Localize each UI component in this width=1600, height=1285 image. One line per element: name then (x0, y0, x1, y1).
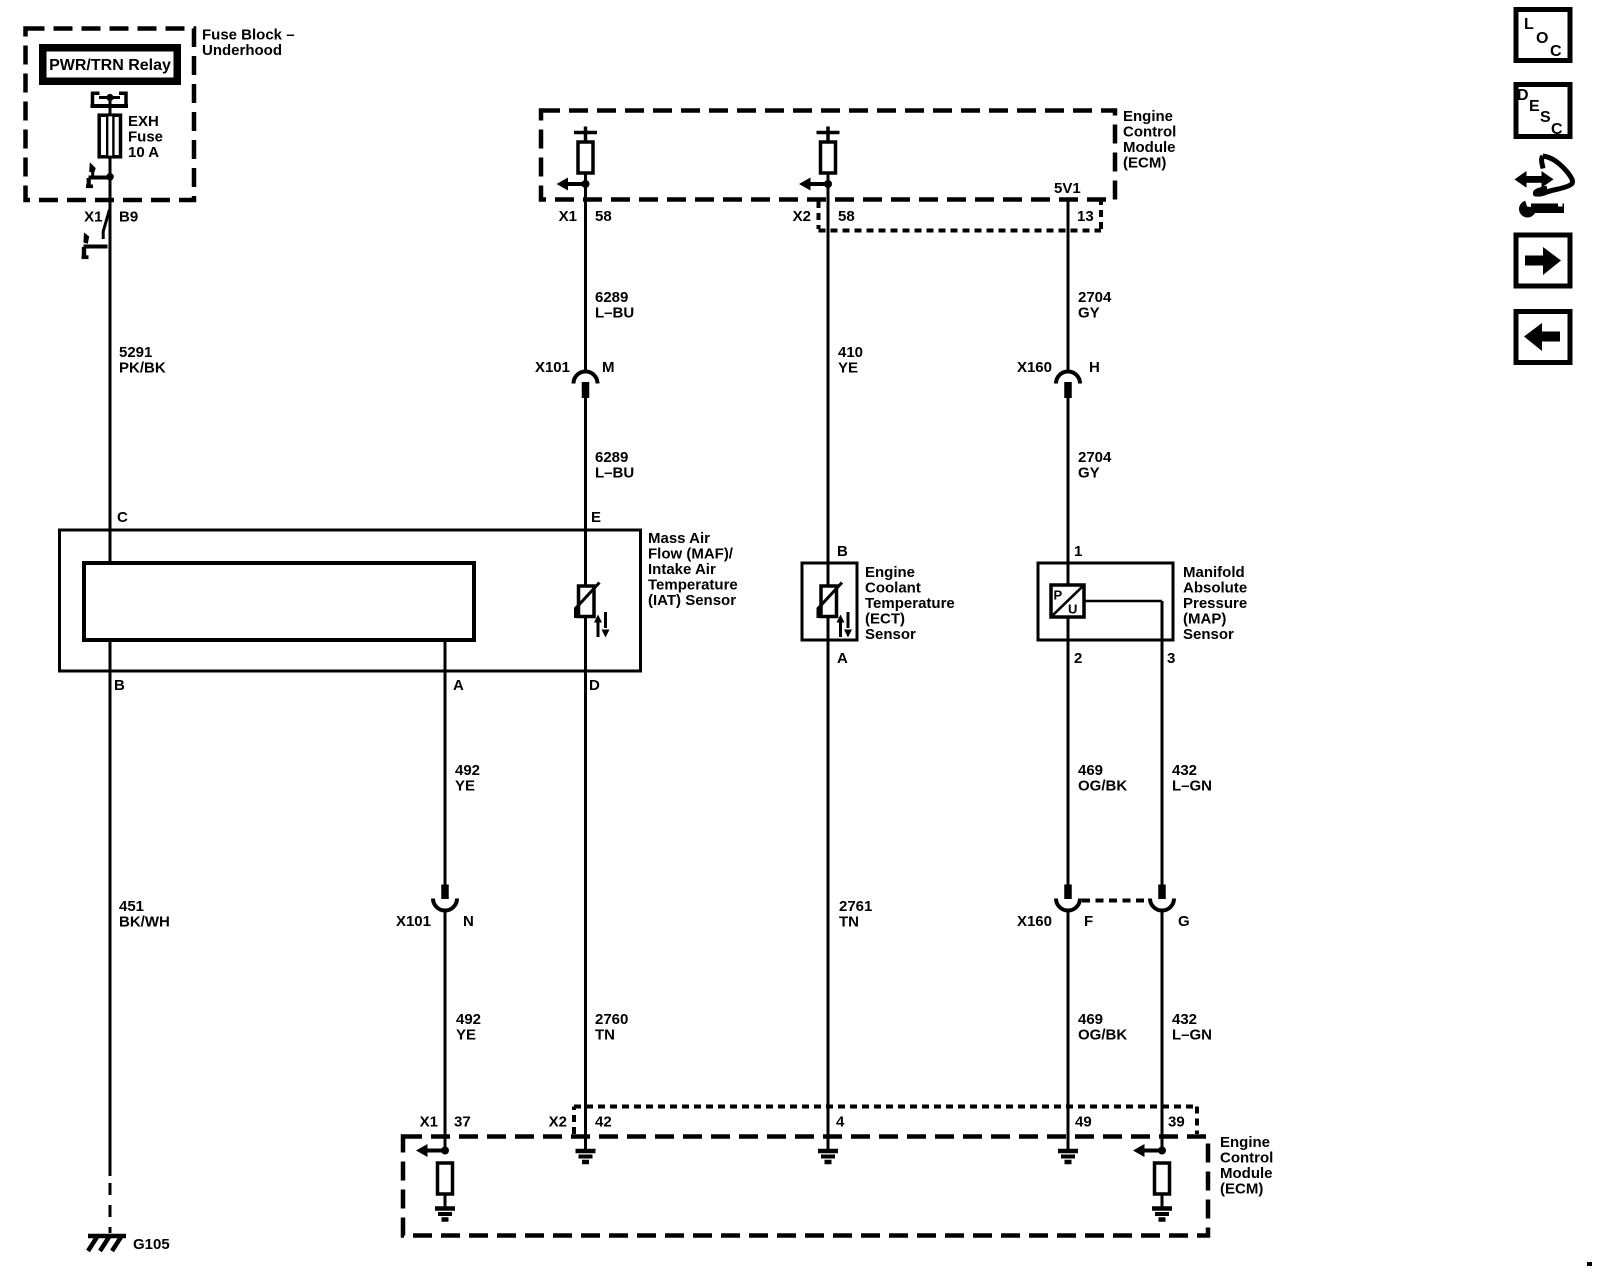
svg-text:D: D (589, 677, 600, 694)
svg-text:432: 432 (1172, 762, 1197, 779)
svg-text:49: 49 (1075, 1114, 1092, 1131)
wire 469 OG/BK upper (1067, 640, 1070, 885)
svg-text:OG/BK: OG/BK (1078, 778, 1127, 795)
svg-text:410: 410 (838, 344, 863, 361)
svg-text:X160: X160 (1017, 913, 1052, 930)
svg-text:L: L (1524, 16, 1534, 33)
ECM bottom dotted sub-connector box (574, 1107, 1197, 1135)
ECM top dotted sub-connector box (819, 201, 1102, 231)
wire E inside MAF box (584, 530, 587, 586)
connector X160 G (1158, 885, 1166, 900)
ECM internal arrow pin 37 (426, 1149, 446, 1153)
wire 2760 TN (584, 671, 587, 1149)
ground ECM pin 49 (1058, 1149, 1078, 1154)
wire A inner to outer (444, 640, 447, 671)
svg-text:Intake Air: Intake Air (648, 561, 716, 578)
svg-text:X1: X1 (559, 208, 577, 225)
svg-text:6289: 6289 (595, 449, 628, 466)
icon LOC button (1516, 10, 1570, 61)
svg-text:TN: TN (595, 1027, 615, 1044)
svg-text:E: E (591, 509, 601, 526)
svg-text:Control: Control (1123, 124, 1176, 141)
wire ECT A out (827, 617, 830, 641)
icon DESC button (1516, 85, 1570, 137)
MAF/IAT sensor inner element box (84, 563, 474, 640)
ECM driver resistor X2-58 (817, 127, 840, 143)
svg-text:BK/WH: BK/WH (119, 914, 170, 931)
svg-text:3: 3 (1167, 650, 1175, 667)
svg-text:A: A (837, 650, 848, 667)
svg-text:Coolant: Coolant (865, 580, 921, 597)
svg-text:(MAP): (MAP) (1183, 611, 1226, 628)
svg-text:2760: 2760 (595, 1011, 628, 1028)
svg-text:L–GN: L–GN (1172, 1027, 1212, 1044)
svg-text:X160: X160 (1017, 359, 1052, 376)
svg-text:OG/BK: OG/BK (1078, 1027, 1127, 1044)
svg-text:C: C (117, 509, 128, 526)
ECM internal arrow X2-58 (809, 182, 829, 186)
ECM internal arrow pin 39 (1143, 1149, 1163, 1153)
svg-text:C: C (1550, 43, 1562, 60)
svg-text:Control: Control (1220, 1150, 1273, 1167)
svg-text:L–BU: L–BU (595, 465, 634, 482)
wire MAP pin 2 out (1067, 617, 1070, 640)
svg-text:58: 58 (595, 208, 612, 225)
svg-text:G105: G105 (133, 1236, 170, 1253)
svg-text:(IAT) Sensor: (IAT) Sensor (648, 592, 736, 609)
svg-text:O: O (1536, 30, 1548, 47)
svg-text:X101: X101 (396, 913, 431, 930)
svg-text:S: S (1540, 109, 1551, 126)
svg-text:TN: TN (839, 914, 859, 931)
svg-text:42: 42 (595, 1114, 612, 1131)
svg-text:Underhood: Underhood (202, 42, 282, 59)
svg-text:2704: 2704 (1078, 449, 1112, 466)
svg-text:(ECM): (ECM) (1123, 155, 1166, 172)
connector X160 F (1064, 885, 1072, 900)
svg-text:6289: 6289 (595, 289, 628, 306)
thermistor IAT (579, 586, 595, 617)
svg-text:PWR/TRN Relay: PWR/TRN Relay (49, 57, 171, 74)
svg-text:D: D (1517, 87, 1529, 104)
page period mark (1587, 1262, 1592, 1266)
svg-text:Module: Module (1123, 139, 1176, 156)
svg-text:Temperature: Temperature (648, 577, 738, 594)
ground ECM pin 4 (818, 1149, 838, 1154)
wire 410 YE (827, 199, 830, 563)
svg-text:432: 432 (1172, 1011, 1197, 1028)
svg-text:4: 4 (836, 1114, 845, 1131)
svg-text:G: G (1178, 913, 1190, 930)
svg-text:58: 58 (838, 208, 855, 225)
wire fuse output (109, 157, 112, 199)
svg-text:451: 451 (119, 898, 144, 915)
wire 2704 GY lower (1067, 398, 1070, 563)
ground ECM pin 42 (576, 1149, 596, 1154)
MAP sensor box (1038, 563, 1173, 640)
svg-text:5V1: 5V1 (1054, 180, 1081, 197)
svg-text:X2: X2 (549, 1114, 567, 1131)
svg-text:GY: GY (1078, 305, 1100, 322)
wire into ECT thermistor (827, 563, 830, 586)
ECM pulldown resistor pin 37 (438, 1163, 453, 1194)
wire C into inner box (109, 530, 112, 563)
svg-text:2704: 2704 (1078, 289, 1112, 306)
relay contact symbol (93, 92, 127, 108)
connector X1 B9 lead slash and hook (103, 210, 109, 240)
svg-text:Sensor: Sensor (865, 626, 916, 643)
wire into P/U element (1067, 563, 1070, 585)
icon back arrow button (1516, 312, 1570, 363)
ground ECM pin 39 (1152, 1206, 1172, 1211)
svg-text:Engine: Engine (1220, 1134, 1270, 1151)
svg-text:492: 492 (455, 762, 480, 779)
svg-text:F: F (1084, 913, 1093, 930)
svg-text:Engine: Engine (865, 564, 915, 581)
ECT sensor box (802, 563, 857, 640)
svg-text:X2: X2 (793, 208, 811, 225)
terminal hook at fuse output (89, 176, 108, 180)
svg-text:Absolute: Absolute (1183, 580, 1247, 597)
svg-text:13: 13 (1077, 208, 1094, 225)
connector X160 H (1056, 372, 1080, 384)
svg-text:C: C (1551, 121, 1563, 138)
wire 451 BK/WH (109, 671, 112, 1176)
svg-text:X101: X101 (535, 359, 570, 376)
ECM internal arrow X1-58 (566, 182, 586, 186)
dashed wire tail to G105 (109, 1183, 112, 1233)
svg-text:Engine: Engine (1123, 108, 1173, 125)
wire relay to fuse (109, 99, 112, 116)
ECM top dashed box (541, 111, 1115, 200)
svg-text:2: 2 (1074, 650, 1082, 667)
wire 6289 L-BU lower (584, 398, 587, 530)
fuse EXH 10A (99, 115, 120, 157)
dashed connector tie F-G (1082, 899, 1147, 903)
svg-text:37: 37 (454, 1114, 471, 1131)
svg-text:Flow (MAF)/: Flow (MAF)/ (648, 546, 734, 563)
svg-text:Sensor: Sensor (1183, 626, 1234, 643)
svg-text:1: 1 (1074, 543, 1082, 560)
MAF/IAT sensor outer box (60, 530, 641, 671)
svg-text:N: N (463, 913, 474, 930)
svg-text:5291: 5291 (119, 344, 152, 361)
svg-text:U: U (1068, 602, 1077, 617)
svg-text:(ECT): (ECT) (865, 611, 905, 628)
ground ECM pin 37 (435, 1206, 455, 1211)
svg-text:X1: X1 (420, 1114, 438, 1131)
wire 2761 TN (827, 640, 830, 1149)
svg-text:469: 469 (1078, 1011, 1103, 1028)
svg-text:Module: Module (1220, 1165, 1273, 1182)
fuse block underhood dashed box (26, 29, 195, 201)
svg-text:GY: GY (1078, 465, 1100, 482)
wire 492 YE lower (444, 911, 447, 1152)
thermistor ECT (821, 586, 837, 617)
svg-text:M: M (602, 359, 615, 376)
svg-text:Temperature: Temperature (865, 595, 955, 612)
svg-text:YE: YE (838, 360, 858, 377)
svg-text:B9: B9 (119, 209, 138, 226)
svg-text:YE: YE (455, 778, 475, 795)
wire 432 L-GN upper (1161, 640, 1164, 885)
svg-text:P: P (1054, 588, 1063, 603)
P/U pressure transducer symbol (1051, 585, 1084, 617)
svg-text:EXH: EXH (128, 113, 159, 130)
svg-text:Manifold: Manifold (1183, 564, 1245, 581)
svg-text:H: H (1089, 359, 1100, 376)
ECM driver resistor X1-58 (574, 127, 597, 143)
wire 492 YE upper (444, 671, 447, 885)
svg-text:Pressure: Pressure (1183, 595, 1247, 612)
svg-text:A: A (453, 677, 464, 694)
svg-text:B: B (114, 677, 125, 694)
svg-text:(ECM): (ECM) (1220, 1181, 1263, 1198)
svg-text:YE: YE (456, 1027, 476, 1044)
svg-text:Mass Air: Mass Air (648, 530, 710, 547)
connector X101 N (441, 885, 449, 900)
ECM pulldown resistor pin 39 (1155, 1163, 1170, 1194)
svg-text:Fuse: Fuse (128, 129, 163, 146)
svg-text:39: 39 (1168, 1114, 1185, 1131)
icon hotlink wrench with arrows (1515, 171, 1527, 188)
wire 5291 PK/BK (109, 199, 112, 530)
svg-text:B: B (837, 543, 848, 560)
ECM bottom dashed box (403, 1137, 1208, 1236)
relay K: PWR/TRN Relay name box (39, 44, 181, 85)
wire 469 OG/BK lower (1067, 911, 1070, 1150)
svg-text:X1: X1 (84, 209, 102, 226)
svg-text:492: 492 (456, 1011, 481, 1028)
wire 432 L-GN lower (1161, 911, 1164, 1152)
wire 6289 L-BU upper (584, 199, 587, 373)
svg-text:Fuse Block –: Fuse Block – (202, 27, 295, 44)
svg-text:10 A: 10 A (128, 144, 159, 161)
wire B inner to outer (109, 640, 112, 671)
svg-text:PK/BK: PK/BK (119, 360, 166, 377)
connector X101 M (574, 372, 598, 384)
svg-text:469: 469 (1078, 762, 1103, 779)
icon forward arrow button (1516, 235, 1570, 286)
internal link P/U to pin 3 (1084, 600, 1162, 603)
chassis ground G105 (88, 1234, 126, 1239)
svg-text:2761: 2761 (839, 898, 872, 915)
svg-text:E: E (1529, 98, 1540, 115)
wire D from thermistor down (584, 617, 587, 672)
svg-text:L–GN: L–GN (1172, 778, 1212, 795)
wire 2704 GY upper (1067, 199, 1070, 373)
svg-text:L–BU: L–BU (595, 305, 634, 322)
